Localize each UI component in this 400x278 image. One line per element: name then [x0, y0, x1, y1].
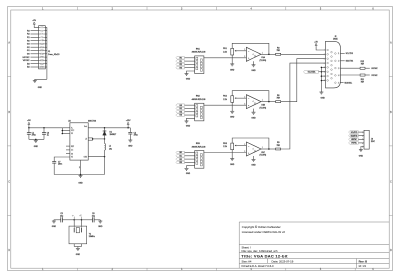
- svg-text:4609X-R2R-103: 4609X-R2R-103: [192, 146, 206, 148]
- junction op-amp U1B output: [268, 101, 270, 103]
- svg-text:GND: GND: [34, 146, 39, 148]
- ground (left of C5): [53, 220, 55, 221]
- crystal Y1 pins top: [73, 220, 75, 226]
- svg-text:14: 14: [42, 47, 44, 49]
- svg-text:HSYNC: HSYNC: [23, 57, 31, 59]
- connector J2 right stub SDA2: [340, 82, 343, 84]
- svg-text:SCL/TX5: SCL/TX5: [346, 53, 353, 55]
- capacitor C5: [54, 219, 61, 221]
- svg-text:(TL974): (TL974): [259, 60, 266, 62]
- wire RN2 output to op-amp: [204, 104, 247, 106]
- svg-text:VSYNC: VSYNC: [23, 60, 30, 62]
- svg-text:RV1: RV1: [223, 48, 227, 50]
- wire C1 C3 ground link: [29, 138, 44, 140]
- svg-text:GND: GND: [230, 69, 235, 71]
- svg-text:VSYNC: VSYNC: [351, 143, 357, 145]
- ground (RN3): [185, 167, 189, 169]
- svg-text:G3: G3: [179, 115, 182, 117]
- op-amp U1B output wire: [261, 101, 276, 103]
- resistor R6 body: [276, 101, 281, 103]
- svg-text:Licensed under CERN-OHL-W v2: Licensed under CERN-OHL-W v2: [242, 230, 286, 234]
- op-amp U1C output wire: [261, 148, 276, 150]
- trimmer RV2 wiper arrow: [235, 97, 237, 99]
- capacitor C7: [52, 161, 56, 163]
- op-amp U1C: [246, 142, 261, 156]
- connector J2 right stub SCL: [340, 53, 344, 55]
- svg-text:G0: G0: [179, 105, 182, 107]
- resistor network RN3 internal resistors: [196, 152, 198, 154]
- svg-text:GND: GND: [359, 156, 364, 158]
- U2 ground pin stem: [80, 160, 82, 174]
- svg-text:26: 26: [42, 67, 44, 69]
- resistor R11 body: [360, 74, 365, 76]
- svg-text:2.2k: 2.2k: [223, 51, 227, 53]
- ground (right of C6): [99, 220, 101, 221]
- connector J3 body: [364, 130, 369, 149]
- wire RN3 output to op-amp: [204, 152, 247, 154]
- connector J2 right stub SDA: [340, 60, 344, 62]
- svg-text:R9: R9: [277, 142, 279, 144]
- diode D1: [104, 128, 106, 131]
- svg-text:LX: LX: [85, 139, 87, 141]
- svg-text:Size: A4: Size: A4: [242, 260, 252, 264]
- wire +5V rail: [28, 126, 30, 128]
- svg-text:HSYNC: HSYNC: [371, 68, 378, 70]
- svg-text:HSYNC: HSYNC: [351, 139, 357, 141]
- U2 left power pins bus: [61, 128, 63, 134]
- svg-text:SDA/TX4: SDA/TX4: [346, 60, 354, 63]
- U2 right output pin: [88, 127, 130, 129]
- title block outline: [238, 222, 240, 268]
- wire crystal top: [74, 219, 81, 221]
- svg-text:GND: GND: [251, 165, 256, 167]
- trimmer RV2 body: [231, 96, 234, 103]
- connector J2 right stub VSYNC: [340, 74, 360, 76]
- connector J2 left stubs: [321, 66, 325, 68]
- resistor network RN2 input wires: [185, 104, 195, 106]
- svg-text:Y1: Y1: [89, 233, 91, 235]
- wire RV2 top to feedback: [232, 91, 269, 102]
- op-amp U1C power ground: [253, 156, 255, 160]
- svg-text:22: 22: [42, 60, 44, 62]
- svg-text:12: 12: [42, 44, 44, 46]
- connector J1 left pin wires: [31, 30, 39, 32]
- junction C1 ground link: [35, 139, 37, 141]
- svg-text:GND: GND: [186, 173, 191, 175]
- svg-text:B2: B2: [179, 159, 181, 161]
- svg-text:REF: REF: [71, 146, 74, 148]
- svg-text:Rev: B: Rev: B: [359, 260, 368, 264]
- wire C7 to U2: [54, 157, 70, 162]
- regulator U2 body: [70, 123, 88, 160]
- svg-text:J3: J3: [371, 138, 373, 140]
- svg-text:MAX734: MAX734: [88, 120, 97, 123]
- resistor network RN1 internal resistors: [196, 57, 198, 59]
- connector J1 body: [39, 26, 46, 69]
- trimmer RV1 body: [231, 48, 234, 55]
- svg-text:2.2k: 2.2k: [223, 146, 227, 148]
- svg-text:Id: 1/1: Id: 1/1: [359, 264, 367, 268]
- connector J3 net labels: [349, 131, 359, 134]
- svg-text:24: 24: [42, 63, 44, 65]
- svg-text:+12V: +12V: [126, 120, 131, 122]
- wire RV2 bottom to ground: [231, 102, 233, 111]
- svg-text:G1: G1: [179, 108, 182, 110]
- junction LX node: [104, 138, 106, 140]
- wire GREEN output riser: [281, 59, 326, 102]
- svg-text:B0: B0: [179, 152, 181, 154]
- svg-text:15p: 15p: [60, 215, 63, 217]
- svg-text:R3: R3: [179, 67, 181, 69]
- svg-text:KiCad E.D.A. kicad 7.0.6-0: KiCad E.D.A. kicad 7.0.6-0: [242, 264, 274, 268]
- svg-text:1u: 1u: [47, 135, 49, 137]
- svg-text:GND: GND: [76, 254, 81, 256]
- resistor network RN1 body: [195, 56, 204, 74]
- svg-text:SDA/SDL: SDA/SDL: [344, 81, 352, 84]
- ground (C2): [128, 139, 132, 141]
- bottom ground rail: [54, 174, 104, 176]
- capacitor C1: [28, 128, 30, 133]
- U2 lower left pins: [66, 145, 70, 147]
- svg-text:RN2: RN2: [196, 96, 200, 98]
- svg-text:GND: GND: [230, 117, 235, 119]
- svg-text:1N5817: 1N5817: [110, 134, 117, 136]
- svg-text:10u: 10u: [109, 148, 112, 150]
- svg-text:GND: GND: [251, 70, 256, 72]
- net label VSYNC: [365, 74, 370, 76]
- svg-text:16: 16: [42, 50, 44, 52]
- resistor network RN1 ground pin: [187, 71, 195, 74]
- op-amp U1A: [246, 47, 261, 61]
- ground (J2): [319, 91, 323, 93]
- capacitor C6: [82, 219, 93, 221]
- svg-text:10: 10: [42, 40, 44, 42]
- op-amp U1B: [246, 95, 261, 109]
- resistor network RN2 body: [195, 103, 204, 121]
- wire +5V to J2: [316, 47, 325, 50]
- U2 LX pins: [88, 137, 93, 139]
- crystal Y1 body: [69, 226, 87, 244]
- junction D1 rail: [104, 127, 106, 129]
- svg-text:GND: GND: [320, 98, 325, 100]
- svg-text:SCL/SDA: SCL/SDA: [308, 70, 316, 73]
- svg-text:GND: GND: [78, 182, 83, 184]
- wire RV3 bottom to ground: [231, 150, 233, 159]
- svg-text:Sheet: /: Sheet: /: [242, 245, 252, 249]
- wire RED output to J2: [281, 53, 326, 55]
- junction PGND node: [104, 156, 106, 158]
- op-amp U1A output wire: [261, 53, 276, 55]
- svg-text:G2: G2: [179, 111, 182, 113]
- resistor R12 body: [360, 67, 365, 69]
- junction +12V rail: [127, 127, 129, 129]
- svg-text:B3: B3: [179, 162, 181, 164]
- svg-text:4609X-R2R-103: 4609X-R2R-103: [192, 52, 206, 54]
- sheet frame column ticks top: [77, 7, 79, 10]
- crystal Y1 ground pins: [73, 244, 75, 247]
- svg-text:4609X-R2R-103: 4609X-R2R-103: [192, 99, 206, 101]
- op-amp U1A power ground: [253, 61, 255, 65]
- ground (RV1): [230, 63, 234, 65]
- svg-text:U1C: U1C: [261, 152, 265, 154]
- svg-text:470n: 470n: [134, 134, 138, 136]
- wire J1 ground bus to GND: [35, 79, 47, 80]
- wire BLUE output riser: [281, 63, 326, 149]
- svg-text:DB15: DB15: [333, 39, 338, 41]
- resistor network RN3 input wires: [185, 152, 195, 154]
- svg-text:GND: GND: [186, 78, 191, 80]
- svg-text:11: 11: [79, 167, 81, 169]
- svg-text:11: 11: [254, 150, 256, 152]
- svg-text:RV3: RV3: [223, 143, 227, 145]
- J2 ground bus: [320, 67, 322, 92]
- svg-text:11: 11: [254, 56, 256, 58]
- U2 PGND pin: [88, 156, 104, 158]
- wire RN1 output to op-amp: [204, 57, 247, 59]
- svg-text:470n: 470n: [32, 135, 36, 137]
- connector J2 pin circles: [327, 49, 329, 51]
- sheet frame column ticks bottom: [77, 268, 79, 270]
- svg-text:GND: GND: [38, 87, 43, 89]
- junction op-amp U1A output: [268, 54, 270, 56]
- node XI: [73, 219, 75, 221]
- svg-text:18: 18: [42, 53, 44, 55]
- trimmer RV3 wiper arrow: [235, 145, 237, 147]
- ground (Y1): [76, 247, 80, 249]
- svg-text:100n: 100n: [58, 164, 62, 166]
- svg-text:20: 20: [42, 57, 44, 59]
- wire RV1 bottom to ground: [231, 55, 233, 64]
- svg-text:V5: V5: [71, 157, 73, 159]
- resistor network RN2 ground pin: [187, 118, 195, 121]
- ground (C1 C3): [35, 139, 37, 140]
- svg-text:R2: R2: [179, 64, 181, 66]
- crystal Y1 symbol: [73, 226, 75, 228]
- net label HSYNC: [365, 67, 370, 69]
- svg-text:GND: GND: [230, 164, 235, 166]
- resistor R9 body: [276, 148, 281, 150]
- svg-text:R6: R6: [277, 95, 279, 97]
- svg-text:R3: R3: [277, 47, 279, 49]
- wire +5V to J1 pin 1: [34, 26, 38, 28]
- svg-text:25MHz: 25MHz: [89, 236, 95, 238]
- resistor network RN3 body: [195, 151, 204, 169]
- svg-text:Copyright © Odrian Kahlander: Copyright © Odrian Kahlander: [242, 225, 281, 229]
- svg-text:File: vga_dac_12bit.kicad_sch: File: vga_dac_12bit.kicad_sch: [242, 249, 279, 253]
- sheet frame row ticks right: [389, 76, 392, 78]
- svg-text:GND: GND: [98, 226, 103, 228]
- svg-text:11: 11: [254, 103, 256, 105]
- sheet frame row ticks left: [8, 76, 11, 78]
- svg-text:DDC: DDC: [371, 141, 376, 143]
- wire RV3 top to feedback: [232, 138, 269, 149]
- ground (RV3): [230, 158, 234, 160]
- svg-text:V5: V5: [71, 133, 73, 135]
- junction C1 rail: [28, 127, 30, 129]
- svg-text:Date: 2023-07-19: Date: 2023-07-19: [272, 260, 294, 264]
- op-amp U1B power ground: [253, 109, 255, 113]
- wire RV1 top to feedback: [232, 43, 269, 54]
- resistor network RN3 ground pin: [187, 166, 195, 169]
- resistor network RN3 input labels: [176, 151, 185, 154]
- svg-text:2.2k: 2.2k: [223, 99, 227, 101]
- net label SCL/SDA to J2: [304, 70, 319, 73]
- resistor network RN1 input labels: [176, 57, 185, 60]
- connector J1 pin rows: [39, 26, 41, 28]
- ground (J3): [359, 149, 363, 151]
- svg-text:RV2: RV2: [223, 96, 227, 98]
- ground (RV2): [230, 110, 234, 112]
- svg-text:SS: SS: [71, 153, 73, 155]
- svg-text:GND: GND: [52, 226, 57, 228]
- connector J1 right pin stubs and ground bus: [45, 26, 47, 28]
- junction U2 ground rail: [80, 174, 82, 176]
- svg-text:SCL/TX5: SCL/TX5: [351, 132, 358, 134]
- svg-text:GND: GND: [128, 146, 133, 148]
- resistor network RN2 input labels: [176, 104, 185, 107]
- svg-text:V+: V+: [71, 128, 73, 130]
- svg-text:GND: GND: [251, 117, 256, 119]
- junction op-amp U1C output: [268, 148, 270, 150]
- svg-text:RN1: RN1: [196, 48, 200, 50]
- connector J3 ground pin: [361, 147, 364, 150]
- connector J2 right stub HSYNC: [340, 67, 360, 69]
- ground (U2): [80, 175, 82, 176]
- svg-text:L1: L1: [109, 146, 111, 148]
- svg-text:15p: 15p: [92, 215, 95, 217]
- svg-text:GND: GND: [186, 126, 191, 128]
- inductor L1: [105, 144, 106, 151]
- capacitor C3: [43, 128, 45, 133]
- svg-text:RN3: RN3: [196, 143, 200, 145]
- trimmer RV3 body: [231, 143, 234, 150]
- resistor network RN1 input wires: [185, 57, 195, 59]
- svg-text:R1: R1: [179, 61, 181, 63]
- ground (RN1): [185, 73, 189, 75]
- resistor R3 body: [276, 53, 281, 55]
- junction C3 rail: [43, 127, 45, 129]
- svg-text:VSYNC: VSYNC: [371, 75, 378, 77]
- connector J2 body: [326, 41, 341, 88]
- svg-text:(TL974): (TL974): [259, 107, 266, 109]
- svg-text:R0: R0: [179, 57, 181, 59]
- ground (J1): [33, 80, 37, 82]
- ground (RN2): [185, 120, 189, 122]
- resistor network RN2 internal resistors: [196, 105, 198, 107]
- svg-text:(TL974): (TL974): [259, 155, 266, 157]
- svg-text:Conn_02x13: Conn_02x13: [48, 54, 60, 56]
- svg-text:Title: VGA DAC 12-bit: Title: VGA DAC 12-bit: [241, 254, 288, 259]
- trimmer RV1 wiper arrow: [235, 50, 237, 52]
- svg-text:B1: B1: [179, 155, 181, 157]
- capacitor C2: [129, 128, 131, 133]
- node XO: [81, 219, 83, 221]
